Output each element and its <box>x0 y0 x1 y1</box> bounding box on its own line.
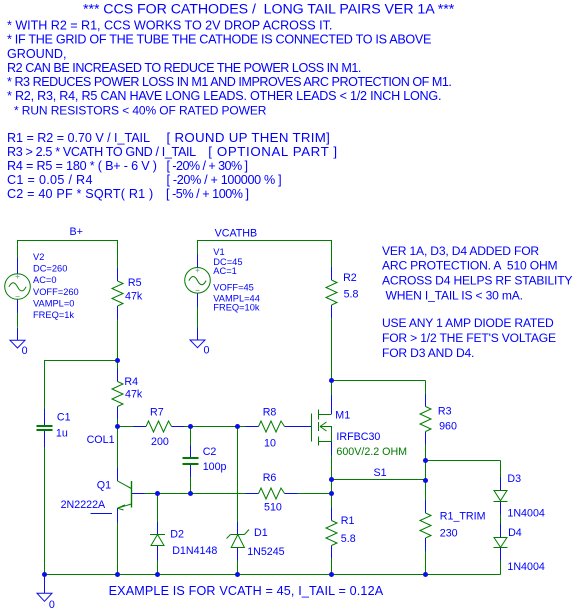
pin V1 plus <box>197 255 199 268</box>
svg-text:R4: R4 <box>124 376 138 388</box>
svg-text:100p: 100p <box>203 461 227 473</box>
svg-text:C2 = 40 PF * SQRT( R1 ): C2 = 40 PF * SQRT( R1 ) <box>7 187 153 201</box>
pin C1 top <box>44 409 46 425</box>
svg-text:1N4004: 1N4004 <box>507 561 544 573</box>
wire R3 bottom to D3 node <box>425 445 427 461</box>
svg-text:FREQ=1k: FREQ=1k <box>33 310 74 320</box>
wire D1 bottom <box>237 560 239 574</box>
svg-text:AC=0: AC=0 <box>33 275 57 285</box>
resistor R5 <box>112 281 123 306</box>
svg-text:* R2, R3, R4, R5 CAN HAVE LONG: * R2, R3, R4, R5 CAN HAVE LONG LEADS. OT… <box>7 89 441 103</box>
wire M1 source node to R1 <box>331 494 333 508</box>
svg-text:D4: D4 <box>508 527 522 539</box>
underline mark below 2N2222A <box>91 513 113 515</box>
pin C2 bottom <box>190 465 192 477</box>
pin M1 source <box>331 441 333 455</box>
wire B+ rail <box>18 240 118 242</box>
comment text block right <box>382 244 572 360</box>
wire COL1 to R7 <box>118 426 134 428</box>
svg-text:0: 0 <box>22 345 28 357</box>
junction R6 / M1 source <box>329 491 334 496</box>
wire R4 bottom to COL1 <box>117 419 119 427</box>
svg-text:WHEN I_TAIL IS < 30 mA.: WHEN I_TAIL IS < 30 mA. <box>386 288 523 302</box>
svg-text:V2: V2 <box>33 252 44 262</box>
resistor R1_TRIM <box>420 513 431 538</box>
pin R1 bottom <box>331 546 333 559</box>
junction C2 top <box>188 424 193 429</box>
junction S1 right / R1_TRIM <box>423 478 428 483</box>
svg-text:1u: 1u <box>56 427 68 439</box>
junction ground rail R1 <box>329 572 334 577</box>
resistor R1 <box>326 521 337 546</box>
pin R3 top <box>425 394 427 407</box>
svg-text:10: 10 <box>264 437 276 449</box>
svg-text:S1: S1 <box>374 467 387 479</box>
svg-text:FREQ=10k: FREQ=10k <box>213 302 260 312</box>
pin V2 minus <box>17 299 19 313</box>
svg-text:[ -20% / + 100000 % ]: [ -20% / + 100000 % ] <box>167 173 282 187</box>
pin R6 right <box>285 493 298 495</box>
svg-text:0: 0 <box>204 344 210 356</box>
wire D1 branch vertical <box>237 427 239 522</box>
pin D1 top <box>237 522 239 534</box>
svg-text:[ ROUND UP THEN TRIM]: [ ROUND UP THEN TRIM] <box>167 130 331 145</box>
resistor R7 <box>146 421 172 432</box>
svg-text:* R3 REDUCES POWER LOSS IN M1: * R3 REDUCES POWER LOSS IN M1 AND IMPROV… <box>7 75 451 89</box>
zener diode D1 <box>227 530 250 548</box>
resistor R6 <box>259 488 285 499</box>
junction R3 bottom / D3 branch <box>423 458 428 463</box>
svg-text:FOR > 1/2 THE FET'S VOLTAGE: FOR > 1/2 THE FET'S VOLTAGE <box>382 331 556 345</box>
wire M1 source to S1 <box>331 455 333 494</box>
junction node A R5/R4/C1 <box>115 358 120 363</box>
wire R8 to M1 gate <box>298 426 300 428</box>
svg-text:VAMPL=0: VAMPL=0 <box>33 298 74 308</box>
svg-text:960: 960 <box>439 420 457 432</box>
wire D3 node to S1 node <box>425 461 427 481</box>
svg-text:FOR D3 AND D4.: FOR D3 AND D4. <box>382 346 474 360</box>
pin Q1 emitter <box>117 508 119 522</box>
svg-text:R3: R3 <box>438 405 452 417</box>
junction M1 drain / R2 <box>329 378 334 383</box>
pin R7 right <box>172 426 185 428</box>
pin D3 bottom <box>500 501 502 514</box>
svg-text:R1: R1 <box>341 515 355 527</box>
wire R7 to C2 node to R8 <box>185 426 246 428</box>
comment text block top <box>7 2 455 201</box>
svg-text:1N5245: 1N5245 <box>247 546 284 558</box>
diode D2 <box>150 535 165 546</box>
svg-text:R3 > 2.5 * VCATH TO GND / I_TA: R3 > 2.5 * VCATH TO GND / I_TAIL <box>7 145 196 159</box>
voltage source V2 <box>5 274 31 300</box>
pin D2 top <box>157 522 159 535</box>
svg-text:C2: C2 <box>203 446 217 458</box>
wire VCATHB drop to R2 <box>331 240 333 267</box>
svg-text:[ -20% / + 30% ]: [ -20% / + 30% ] <box>167 159 248 173</box>
svg-text:D1N4148: D1N4148 <box>172 545 217 557</box>
ground V2 <box>10 328 25 348</box>
svg-text:R6: R6 <box>263 472 277 484</box>
pin R1_TRIM bottom <box>425 538 427 551</box>
pin V1 minus <box>197 293 199 307</box>
svg-text:510: 510 <box>264 501 282 513</box>
diode D4 <box>494 538 508 548</box>
svg-text:DC=260: DC=260 <box>33 264 67 274</box>
svg-text:V1: V1 <box>213 247 224 257</box>
pin R4 top <box>117 369 119 382</box>
pin R8 left <box>246 426 259 428</box>
wire C1 bottom to ground rail <box>44 447 46 575</box>
wire Q1 emitter down <box>117 522 119 574</box>
pin D3 top <box>500 477 502 490</box>
svg-text:5.8: 5.8 <box>344 288 359 300</box>
wire D2 bottom <box>157 546 159 575</box>
wire R3 rail drop <box>425 381 427 395</box>
svg-text:5.8: 5.8 <box>341 533 356 545</box>
svg-text:EXAMPLE IS FOR VCATH = 45, I_T: EXAMPLE IS FOR VCATH = 45, I_TAIL = 0.12… <box>109 584 384 598</box>
svg-text:VCATHB: VCATHB <box>215 228 258 240</box>
junction ground rail D1 <box>235 572 240 577</box>
pin Q1 base <box>131 493 144 495</box>
svg-text:* IF THE GRID OF THE TUBE THE: * IF THE GRID OF THE TUBE THE CATHODE IS… <box>7 33 431 47</box>
pin R2 bottom <box>331 305 333 318</box>
svg-text:VER 1A, D3, D4 ADDED FOR: VER 1A, D3, D4 ADDED FOR <box>382 244 539 258</box>
svg-text:R7: R7 <box>150 406 164 418</box>
wire R1 bottom <box>331 559 333 575</box>
svg-text:ACROSS D4 HELPS RF STABILITY: ACROSS D4 HELPS RF STABILITY <box>382 274 572 288</box>
svg-text:R2 CAN BE INCREASED TO REDUCE: R2 CAN BE INCREASED TO REDUCE THE POWER … <box>7 61 361 75</box>
wire Q1 collector from COL1 <box>117 427 119 468</box>
wire R5 bottom to node A <box>117 320 119 361</box>
junction C2 bottom <box>188 491 193 496</box>
svg-text:R1 = R2 = 0.70 V / I_TAIL: R1 = R2 = 0.70 V / I_TAIL <box>7 131 150 145</box>
wire drain node to M1 <box>331 381 333 396</box>
voltage source V1 <box>185 268 211 294</box>
svg-text:2N2222A: 2N2222A <box>61 499 106 511</box>
wire B+ rail drop to R5 <box>117 240 119 268</box>
wire V2 bottom <box>17 313 19 328</box>
wire D3 branch drop <box>500 461 502 478</box>
resistor R4 <box>112 382 123 407</box>
resistor R2 <box>326 280 337 305</box>
wire R1_TRIM bottom <box>425 551 427 575</box>
wire V1 bottom <box>197 307 199 328</box>
wire ground rail bottom <box>45 574 501 576</box>
wire V2 top <box>17 240 19 258</box>
wire node A horizontal to C1 <box>45 360 118 362</box>
pin R2 top <box>331 267 333 280</box>
wire R6 to M1 source node <box>298 493 332 495</box>
svg-text:1N4004: 1N4004 <box>507 507 544 519</box>
svg-text:0: 0 <box>49 599 55 611</box>
pin R5 top <box>117 268 119 281</box>
pin R3 bottom <box>425 432 427 445</box>
svg-text:D1: D1 <box>254 527 268 539</box>
pin R8 right and M1 gate pin <box>285 426 312 428</box>
pin Q1 collector <box>117 468 119 481</box>
capacitor C1 <box>37 426 53 430</box>
svg-text:*** CCS FOR CATHODES / LONG T: *** CCS FOR CATHODES / LONG TAIL PAIRS V… <box>83 2 455 18</box>
svg-text:D2: D2 <box>170 528 184 540</box>
transistor Q1 <box>118 481 132 510</box>
pin R6 left <box>246 493 259 495</box>
pin R1 top <box>331 508 333 521</box>
pin D1 bottom <box>237 548 239 561</box>
wire S1 rail <box>332 479 426 481</box>
pin C1 bottom <box>44 431 46 447</box>
svg-text:C1 = 0.05 / R4: C1 = 0.05 / R4 <box>7 173 93 187</box>
svg-text:VOFF=45: VOFF=45 <box>213 283 254 293</box>
wire between D3 and D4 <box>500 514 502 523</box>
wire D4 bottom drop <box>500 561 502 575</box>
svg-text:IRFBC30: IRFBC30 <box>336 431 380 443</box>
svg-text:R1_TRIM: R1_TRIM <box>440 510 486 522</box>
pin R4 bottom <box>117 407 119 420</box>
svg-text:GROUND,: GROUND, <box>7 47 66 61</box>
wire node A to R4 <box>117 361 119 369</box>
svg-text:C1: C1 <box>57 411 71 423</box>
mosfet M1 <box>312 410 332 446</box>
wire drain node to R3 rail <box>332 380 426 382</box>
svg-text:COL1: COL1 <box>87 434 115 446</box>
wire base rail Q1 to R6 <box>144 493 245 495</box>
svg-text:M1: M1 <box>335 409 350 421</box>
junction ground rail Q1 <box>115 572 120 577</box>
pin C2 top <box>190 446 192 458</box>
pin D4 top <box>500 524 502 537</box>
pin M1 drain <box>331 395 333 414</box>
junction ground rail C1 <box>42 572 47 577</box>
svg-text:D3: D3 <box>507 473 521 485</box>
pin R5 bottom <box>117 306 119 320</box>
svg-text:47k: 47k <box>125 388 143 400</box>
svg-text:AC=1: AC=1 <box>213 266 237 276</box>
svg-text:R8: R8 <box>263 406 277 418</box>
ground bottom rail <box>37 575 52 602</box>
capacitor C2 <box>183 458 199 464</box>
wire C2 bottom <box>190 477 192 494</box>
svg-text:Q1: Q1 <box>97 479 111 491</box>
svg-text:R4 = R5 = 180 * ( B+ - 6 V ): R4 = R5 = 180 * ( B+ - 6 V ) <box>7 159 157 173</box>
svg-text:USE ANY 1 AMP DIODE RATED: USE ANY 1 AMP DIODE RATED <box>382 316 554 330</box>
pin D4 bottom <box>500 548 502 561</box>
wire VCATHB rail <box>198 240 332 242</box>
svg-text:* RUN RESISTORS < 40% OF RATED: * RUN RESISTORS < 40% OF RATED POWER <box>14 104 267 118</box>
junction ground rail D2 <box>155 572 160 577</box>
wire V1 top <box>197 240 199 255</box>
pin R1_TRIM top <box>425 500 427 513</box>
resistor R3 <box>420 407 431 432</box>
resistor R8 <box>259 421 285 432</box>
svg-text:R5: R5 <box>128 277 142 289</box>
ground V1 <box>190 328 205 348</box>
junction Q1 base / D2 <box>155 491 160 496</box>
pin R7 left <box>133 426 146 428</box>
svg-text:600V/2.2 OHM: 600V/2.2 OHM <box>336 446 407 458</box>
wire R2 bottom to drain node <box>331 318 333 381</box>
svg-text:200: 200 <box>151 436 169 448</box>
junction D1 top <box>235 424 240 429</box>
pin D2 bottom <box>157 546 159 561</box>
wire C1 top <box>44 360 46 409</box>
junction COL1 <box>115 424 120 429</box>
svg-text:47k: 47k <box>125 290 143 302</box>
svg-text:230: 230 <box>440 527 458 539</box>
svg-text:VOFF=260: VOFF=260 <box>33 287 79 297</box>
wire D3 branch horizontal top <box>426 460 501 462</box>
svg-text:[ OPTIONAL PART ]: [ OPTIONAL PART ] <box>208 144 337 159</box>
wire S1 node to R1_TRIM <box>425 481 427 501</box>
svg-text:* WITH R2 = R1, CCS WORKS TO 2: * WITH R2 = R1, CCS WORKS TO 2V DROP ACR… <box>7 19 332 33</box>
svg-text:R2: R2 <box>343 272 357 284</box>
svg-text:[ -5% / + 100% ]: [ -5% / + 100% ] <box>166 187 249 201</box>
pin V2 plus <box>17 258 19 274</box>
junction S1 left <box>329 477 334 482</box>
svg-text:ARC PROTECTION. A 510 OHM: ARC PROTECTION. A 510 OHM <box>382 259 558 273</box>
diode D3 <box>494 491 508 502</box>
junction ground rail R1_TRIM/D4 <box>423 572 428 577</box>
svg-text:B+: B+ <box>70 226 83 238</box>
wire C2 top <box>190 427 192 446</box>
wire D2 top <box>157 494 159 522</box>
